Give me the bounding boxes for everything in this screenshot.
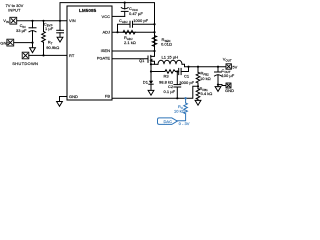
svg-text:3.4 kΩ: 3.4 kΩ [201,91,213,96]
svg-text:VIN: VIN [69,18,76,23]
svg-text:GND: GND [0,40,9,45]
wire : C1 to output rail [181,67,188,72]
ground : below D1 [148,90,154,95]
node : COUT ground node [217,84,219,86]
node : RADJ to sense column [153,31,155,33]
node : GND/CIN junction [31,42,33,44]
svg-text:D1: D1 [143,79,149,84]
svg-text:GND: GND [69,94,78,99]
terminal VIN [10,17,17,24]
wire : switch node to inductor [151,63,158,65]
capacitor CIN 33uF [29,21,36,48]
transistor Q1 (PFET) [148,55,155,65]
inductor L1 15uH [158,60,182,64]
wire : CADJ row [118,24,131,32]
svg-text:INPUT: INPUT [8,8,21,13]
terminal GND (input side) [7,39,14,46]
capacitor CBYP 1uF [57,21,64,37]
svg-text:VCC: VCC [102,14,111,19]
node : blue junction on FB wire [184,97,186,99]
wire : GND terminal to CIN column [14,42,33,44]
capacitor CVCC 0.47uF [121,3,128,17]
svg-text:2.1 kΩ: 2.1 kΩ [124,40,136,45]
wire : top VIN rail [60,3,155,55]
svg-text:PGATE: PGATE [97,56,111,61]
node : rail riser junction on VIN wire [59,20,61,22]
node : COUT junction on output rail [217,66,219,68]
node : CVCC junction on rail [124,1,126,3]
diode D1 [149,81,153,91]
ground : below CIN [30,48,36,53]
svg-text:0.47 µF: 0.47 µF [129,11,143,16]
wire : shutdown / RT pin wire [29,54,67,56]
svg-text:1 µF: 1 µF [45,26,54,31]
node : R3 junction on D1 column [150,70,152,72]
resistor RSEN 0.01ohm [152,36,156,47]
resistor R3 98.8k [165,70,176,74]
wire : D1 column from switch node [150,64,152,81]
ground : IC GND pin [57,102,63,107]
svg-text:1000 pF: 1000 pF [133,18,148,23]
node : CADJ to sense column [153,23,155,25]
resistor RFB2 10k [196,67,200,87]
ground : below COUT [215,87,221,92]
wire : VCC pin to CVCC [112,15,125,17]
svg-text:0.1 µF: 0.1 µF [164,89,176,94]
wire : to GND output terminal [218,84,222,86]
svg-text:LM5085: LM5085 [79,8,97,13]
resistor Rx 10k (blue) and DAC [158,98,188,124]
resistor RT 90.9k [42,21,46,56]
ground : below RFB1 [195,100,201,105]
svg-text:SHUTDOWN: SHUTDOWN [12,61,38,66]
svg-text:C2: C2 [168,84,174,89]
wire : L1 to output rail [182,64,226,66]
resistor RFB1 3.4k [196,86,200,100]
ground : below CBYP [57,37,63,42]
wire : VIN terminal to VIN pin [17,20,67,22]
svg-text:0 - 3V: 0 - 3V [179,121,190,126]
wire : ISEN pin row [112,50,155,52]
svg-text:90.9kΩ: 90.9kΩ [46,45,59,50]
svg-text:10 kΩ: 10 kΩ [200,76,211,81]
svg-text:R3: R3 [164,74,170,79]
node : ISEN junction [153,50,155,52]
node : switch node [150,63,152,65]
node : FB divider node [197,85,199,87]
node : RT bottom junction on shutdown wire [42,54,44,56]
svg-text:0.01Ω: 0.01Ω [161,41,172,46]
capacitor COUT 100uF [215,67,222,85]
capacitor C1 3000pF [179,68,181,74]
node : C1 junction on output rail [187,66,189,68]
node : RFB2 junction on output rail [197,66,199,68]
svg-text:ADJ: ADJ [102,30,110,35]
node : RT resistor junction on VIN wire [42,20,44,22]
svg-text:VOUT: VOUT [223,56,232,62]
node : ADJ junction [116,31,118,33]
capacitor C2 0.1uF [174,72,181,99]
capacitor CADJ 1000pF [130,21,133,27]
resistor RADJ 2.1k [123,30,135,34]
svg-text:C1: C1 [184,74,190,79]
svg-text:RT: RT [69,53,75,58]
svg-text:5V: 5V [232,64,237,69]
wire : PGATE pin row [112,58,148,60]
svg-text:CADJ: CADJ [119,18,128,24]
svg-text:33 µF: 33 µF [16,28,27,33]
wire : FB pin wire [112,86,198,98]
svg-text:ISEN: ISEN [101,48,110,53]
IC U1 : LM5085 controller box [67,6,112,100]
svg-text:VIN: VIN [3,18,9,24]
wire : R3/C1 row [151,71,165,73]
node : R3/C1/C2 junction [176,70,178,72]
svg-text:100 µF: 100 µF [222,73,235,78]
wire : GND pin to ground [60,97,68,102]
svg-text:GND: GND [225,88,234,93]
svg-text:L1 15 µH: L1 15 µH [162,55,179,60]
svg-text:Q1: Q1 [139,58,145,63]
svg-text:10 kΩ: 10 kΩ [174,108,185,113]
svg-text:FB: FB [105,94,110,99]
terminal GND (output side) [226,83,231,88]
svg-text:3000 pF: 3000 pF [179,80,194,85]
wire : ADJ pin row [112,31,155,33]
node : CIN junction on VIN wire [31,20,33,22]
svg-text:DAC: DAC [164,119,173,124]
terminal SHUTDOWN [22,52,29,59]
terminal VOUT [226,64,231,69]
node : C2 on FB wire [176,97,178,99]
